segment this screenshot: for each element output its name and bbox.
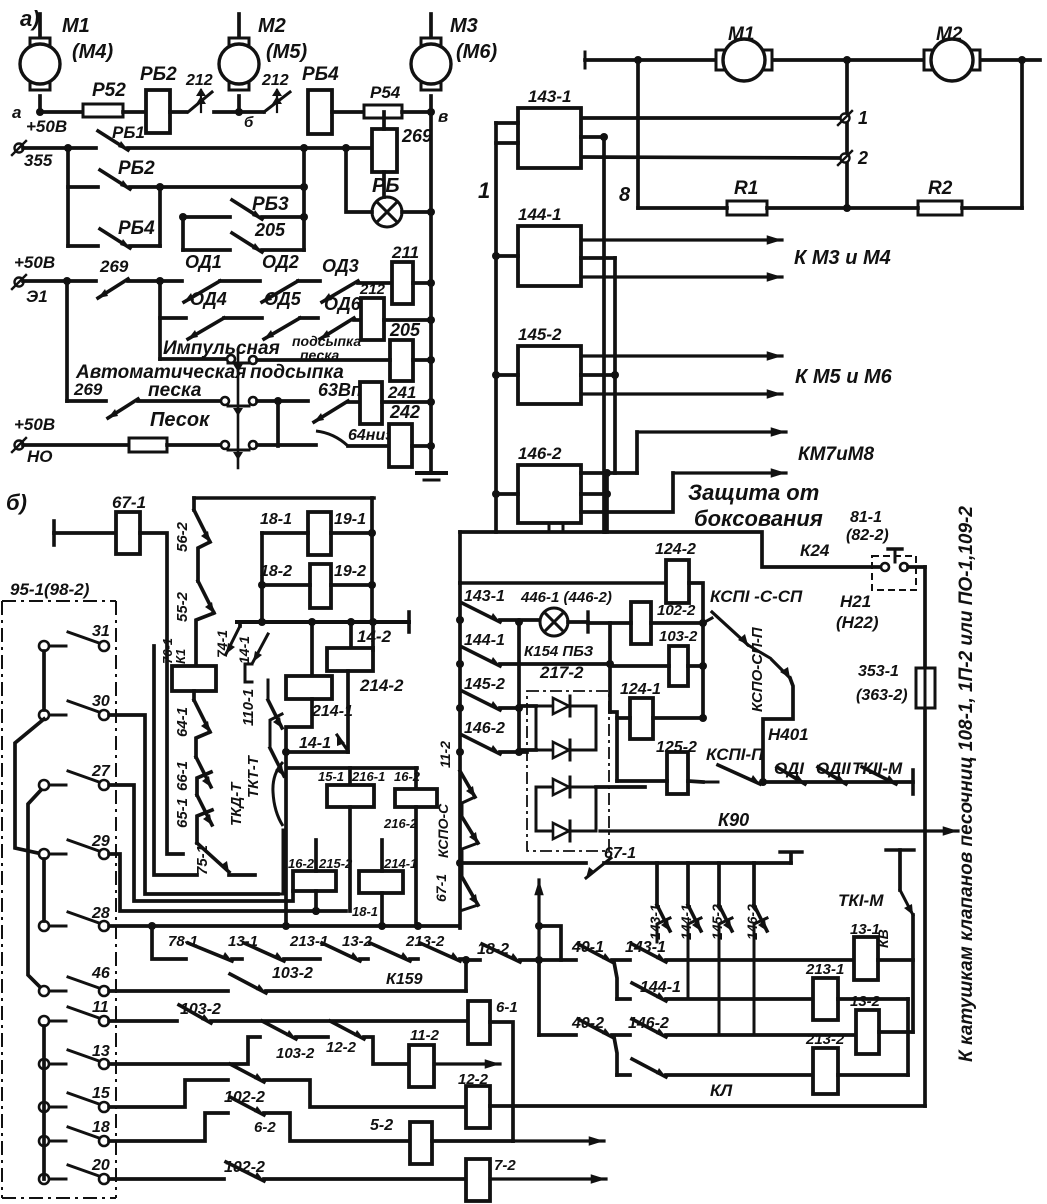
svg-text:242: 242: [389, 402, 420, 422]
svg-text:РБ2: РБ2: [118, 158, 155, 179]
wire RB4 to R54: [332, 110, 364, 114]
left rail x460 with contact column: [458, 583, 462, 928]
svg-text:ОД6: ОД6: [324, 294, 362, 314]
svg-text:15: 15: [92, 1085, 111, 1102]
svg-text:145-2: 145-2: [464, 676, 505, 693]
svg-text:ОД2: ОД2: [262, 252, 299, 272]
svg-text:19-2: 19-2: [334, 563, 366, 580]
wire 5-2 to node x513: [432, 1139, 513, 1143]
svg-text:К катушкам клапанов песочниц: К катушкам клапанов песочниц 108-1, 1П-2…: [956, 506, 977, 1062]
motor M1 (M4): [38, 14, 42, 44]
svg-text:143-1: 143-1: [528, 87, 571, 106]
wire NO to fuse: [23, 443, 129, 447]
ground symbol: [417, 471, 446, 475]
left rail of RB rows: [66, 148, 70, 246]
resistor R54: [364, 105, 402, 118]
svg-text:НО: НО: [27, 447, 53, 466]
svg-text:64низ: 64низ: [348, 427, 393, 444]
wire 241 to rail: [382, 400, 431, 404]
svg-text:КСПI-П: КСПI-П: [706, 745, 764, 764]
svg-text:78-1: 78-1: [168, 933, 198, 950]
wire under 214-1 box: [286, 699, 312, 752]
rail x160: [158, 187, 162, 246]
fuse: [129, 438, 167, 452]
svg-text:216-1: 216-1: [351, 769, 385, 784]
jog x539-x561: [539, 926, 561, 960]
svg-text:212: 212: [261, 72, 289, 89]
row 14-1: [286, 750, 348, 754]
wire 269 bottom to lamp: [382, 172, 386, 197]
bus +50V 355: [23, 146, 96, 150]
wires diode box left: [519, 704, 536, 708]
vertical 15-1 box down: [348, 807, 352, 911]
arrow K M3 M4 bottom: [581, 275, 782, 278]
svg-text:6-2: 6-2: [254, 1119, 276, 1136]
up arrow: [537, 880, 540, 958]
rail x703: [701, 623, 705, 719]
motor M2 right: [924, 50, 937, 70]
svg-text:К159: К159: [386, 971, 423, 988]
vertical 214-1 lower pins: [380, 840, 384, 871]
svg-text:46: 46: [91, 965, 110, 982]
right rail of section A: [429, 112, 433, 472]
contact 14-1 blade: [337, 735, 348, 751]
contact chain 55-2: [198, 542, 210, 581]
row ODI ODII TKII-M: [763, 780, 913, 784]
svg-text:67-1: 67-1: [433, 874, 449, 902]
left link 29-28: [42, 859, 46, 921]
wire M2 bottom lead: [237, 96, 241, 112]
svg-text:102-2: 102-2: [224, 1159, 265, 1176]
row 15: [109, 1080, 228, 1107]
lamp right terminal bar: [568, 620, 588, 624]
row C 40-2 146-2: [537, 960, 541, 1035]
svg-text:215-2: 215-2: [318, 856, 353, 871]
wire lamp row to 102-2: [588, 621, 631, 625]
svg-text:а): а): [20, 6, 40, 31]
row 18: [109, 1113, 228, 1141]
svg-text:56-2: 56-2: [174, 521, 191, 552]
svg-text:66-1: 66-1: [174, 761, 191, 791]
svg-text:146-2: 146-2: [518, 444, 562, 463]
wire R54 to node v: [402, 110, 431, 114]
rail x913: [911, 915, 915, 1032]
wire 40-2 drop to row D: [614, 1037, 617, 1075]
svg-text:К90: К90: [718, 810, 749, 830]
wire lamp left to bus node: [346, 148, 372, 212]
svg-text:М3: М3: [450, 15, 478, 37]
svg-text:ОД4: ОД4: [190, 289, 227, 309]
arrow row 20 out: [490, 1177, 606, 1180]
svg-text:ОД5: ОД5: [264, 289, 302, 309]
svg-text:29: 29: [91, 833, 110, 850]
svg-text:124-2: 124-2: [655, 541, 696, 558]
svg-text:18-1: 18-1: [260, 511, 292, 528]
svg-text:20: 20: [91, 1157, 110, 1174]
bus +50V E1: [23, 279, 96, 283]
svg-text:14-1: 14-1: [299, 735, 331, 752]
svg-text:R2: R2: [928, 178, 953, 199]
wire M1 bottom lead to node a: [38, 96, 42, 112]
svg-text:(82-2): (82-2): [846, 527, 889, 544]
svg-text:144-1: 144-1: [640, 979, 681, 996]
svg-text:ОД1: ОД1: [185, 252, 222, 272]
wire diode row 787: [596, 785, 645, 789]
left link 30 down diagonal: [15, 719, 44, 853]
arrow row 18 out: [513, 1139, 604, 1142]
svg-text:65-1: 65-1: [174, 798, 191, 828]
wire row 29 feed: [109, 854, 346, 911]
svg-text:б): б): [6, 490, 27, 515]
arrow KM7 top: [607, 471, 637, 475]
row 13: [109, 1037, 260, 1064]
svg-text:К1: К1: [173, 649, 188, 664]
svg-text:212: 212: [359, 281, 386, 298]
svg-text:145-2: 145-2: [518, 325, 562, 344]
riser x460 to top horizontal: [458, 532, 462, 583]
svg-text:81-1: 81-1: [850, 509, 882, 526]
svg-text:5-2: 5-2: [370, 1117, 393, 1134]
svg-text:(М5): (М5): [266, 41, 307, 63]
svg-text:30: 30: [92, 693, 110, 710]
svg-text:(Н22): (Н22): [836, 613, 879, 632]
wire 18-2 left: [262, 583, 310, 587]
svg-text:Песок: Песок: [150, 409, 210, 431]
bus 14-2: [237, 620, 409, 624]
resistor R52: [83, 104, 123, 117]
svg-text:11-2: 11-2: [410, 1027, 440, 1044]
svg-text:РБ4: РБ4: [118, 218, 155, 239]
svg-text:(363-2): (363-2): [856, 687, 908, 704]
svg-text:песка: песка: [148, 380, 202, 401]
wire row 28: [109, 924, 458, 928]
wire from boxes bottom to K24 path: [548, 523, 551, 532]
svg-text:103-2: 103-2: [659, 628, 698, 645]
wire after button row NO: [257, 443, 316, 447]
svg-text:19-1: 19-1: [334, 511, 366, 528]
svg-text:269: 269: [99, 257, 129, 276]
riser x466 to 18-2 row: [464, 960, 468, 991]
svg-text:31: 31: [92, 623, 110, 640]
rail x67 down: [65, 281, 69, 401]
motor M1 right: [716, 50, 729, 70]
contact RB1: [98, 131, 128, 150]
wire 144-1 left pin: [496, 254, 518, 258]
node on bus: [64, 144, 72, 152]
svg-text:М2: М2: [258, 15, 286, 37]
svg-text:13-2: 13-2: [850, 993, 881, 1010]
svg-text:55-2: 55-2: [174, 591, 191, 622]
wire box right rail x373: [371, 622, 375, 650]
rail x607 lower: [605, 473, 609, 532]
svg-text:213-2: 213-2: [405, 933, 445, 950]
svg-text:205: 205: [254, 220, 286, 240]
rail x604: [581, 135, 604, 139]
wire button to right rail: [908, 565, 925, 569]
row 11: [109, 1019, 177, 1023]
left link 27 diagonal to 46: [28, 790, 41, 986]
top horizontal of center section: [460, 581, 666, 585]
svg-text:а: а: [12, 103, 21, 122]
top horizontal of chain: [194, 496, 374, 500]
svg-text:124-1: 124-1: [620, 681, 661, 698]
svg-text:353-1: 353-1: [858, 663, 899, 680]
wire a to R52: [40, 110, 83, 114]
svg-text:Э1: Э1: [26, 287, 48, 306]
svg-text:110-1: 110-1: [240, 689, 257, 726]
coil 214-1 box: [310, 622, 314, 676]
svg-text:7-2: 7-2: [494, 1157, 516, 1174]
wires right boxes: [878, 958, 913, 962]
dash-dot border box: [2, 601, 116, 1198]
svg-text:14-1: 14-1: [236, 636, 252, 664]
coil K1 76-1: [196, 613, 214, 666]
wire M3 bottom lead: [429, 96, 433, 112]
terminal bar left of 67-1: [52, 521, 56, 545]
wire 124-2 right: [689, 583, 703, 623]
svg-text:РБ4: РБ4: [302, 64, 339, 85]
wire line 1 from box 143-1: [581, 116, 838, 120]
wire from terminal 31 rail: [154, 646, 197, 875]
node and rail x847: [843, 56, 851, 64]
wire RB2 right: [170, 110, 186, 114]
svg-text:103-2: 103-2: [276, 1045, 315, 1062]
rail x304: [302, 148, 306, 250]
wire impulse row: [160, 357, 226, 361]
rail x278: [276, 401, 280, 446]
wire 144-1 mid right pin: [581, 256, 615, 260]
coil RB2: [146, 90, 170, 133]
svg-text:18-2: 18-2: [260, 563, 292, 580]
svg-text:64-1: 64-1: [174, 707, 191, 737]
rail x610: [608, 623, 612, 712]
svg-text:205: 205: [389, 320, 421, 340]
svg-text:Н401: Н401: [768, 725, 809, 744]
diode 1: [553, 698, 569, 714]
svg-text:ТКI-М: ТКI-М: [838, 891, 884, 910]
rail x615: [613, 258, 617, 473]
svg-text:144-1: 144-1: [464, 632, 505, 649]
rail x372: [370, 498, 374, 622]
svg-text:211: 211: [391, 243, 419, 262]
motor M3 (M6): [429, 14, 433, 44]
chain 2 tail curve: [273, 762, 283, 826]
wire 269 top stub: [382, 112, 386, 129]
svg-text:боксования: боксования: [694, 506, 823, 531]
chain 2 blade 3: [267, 680, 270, 700]
left link 11-20 rail: [42, 1026, 46, 1179]
svg-text:15-1: 15-1: [318, 769, 344, 784]
R row wire: [638, 206, 727, 210]
wire line 2 from box 143-1: [581, 157, 838, 158]
wire after button row avto: [257, 399, 308, 403]
diode bridge box 2: [536, 787, 596, 831]
rail x617 down: [615, 718, 619, 781]
svg-text:212: 212: [185, 72, 213, 89]
arrow K M5 M6 bottom: [581, 392, 782, 395]
svg-text:241: 241: [387, 383, 416, 402]
wire 18-1 left: [262, 531, 308, 535]
wire 103-2 row: [610, 664, 669, 666]
wire 102-2 right: [651, 621, 703, 625]
svg-text:27: 27: [91, 763, 111, 780]
wire 6-1 right to x513: [490, 1022, 513, 1141]
wire row 27 feed: [109, 785, 293, 901]
svg-text:144-1: 144-1: [518, 205, 561, 224]
svg-text:213-2: 213-2: [805, 1031, 845, 1048]
svg-text:ТКД-Т: ТКД-Т: [228, 781, 245, 826]
svg-text:К154 ПБЗ: К154 ПБЗ: [524, 643, 594, 660]
wire 124-1 row: [610, 712, 630, 718]
svg-text:103-2: 103-2: [272, 965, 313, 982]
arrow K M3 M4 top: [581, 238, 782, 241]
svg-text:213-1: 213-1: [805, 961, 844, 978]
bracket: [245, 664, 252, 682]
svg-text:13-2: 13-2: [342, 933, 373, 950]
svg-text:Р52: Р52: [92, 80, 126, 101]
wire chain2 bottom join: [278, 893, 283, 896]
svg-text:63Вп: 63Вп: [318, 380, 362, 400]
rail x160 down from bus E1: [158, 281, 162, 359]
svg-text:+50В: +50В: [14, 253, 55, 272]
svg-text:8: 8: [619, 184, 631, 206]
rail x519 lamp column: [517, 622, 521, 752]
svg-text:Р54: Р54: [370, 83, 401, 102]
row 20: [109, 1177, 224, 1181]
row D: [617, 1073, 630, 1077]
svg-text:12-2: 12-2: [326, 1039, 357, 1056]
coil 14-2 box: [349, 622, 353, 648]
arrow row 13 out: [434, 1062, 500, 1065]
chain 2 blade 4: [270, 714, 282, 748]
diode 4: [553, 823, 569, 839]
svg-text:КЛ: КЛ: [710, 1081, 732, 1100]
svg-text:6-1: 6-1: [496, 999, 518, 1016]
svg-text:ТКТ-Т: ТКТ-Т: [245, 754, 262, 798]
svg-text:R1: R1: [734, 178, 758, 199]
svg-text:216-2: 216-2: [383, 816, 418, 831]
wire row 30 feed: [109, 715, 278, 894]
end bar ODI row: [911, 770, 915, 794]
svg-text:б: б: [244, 114, 254, 131]
svg-text:К М5 и М6: К М5 и М6: [795, 366, 893, 388]
arrow K M5 M6 top: [581, 354, 782, 357]
svg-text:214-1: 214-1: [383, 856, 417, 871]
svg-text:М1: М1: [62, 15, 90, 37]
svg-text:Н21: Н21: [840, 592, 871, 611]
wire 19-1 right: [331, 531, 372, 535]
row OD4 OD5 OD6: [160, 316, 186, 320]
coil 269 top: [372, 129, 397, 172]
svg-text:+50В: +50В: [26, 117, 67, 136]
wire 146-2 left pin: [496, 492, 518, 496]
svg-text:13: 13: [92, 1043, 110, 1060]
chain bottom to 75-1: [197, 810, 212, 843]
top bus right: [585, 58, 1040, 62]
svg-text:К М3 и М4: К М3 и М4: [794, 247, 891, 269]
wire R52 to RB2: [123, 110, 146, 114]
svg-text:РБ1: РБ1: [112, 123, 145, 142]
terminal 1: [841, 114, 850, 123]
wire fuse to button: [167, 443, 220, 447]
svg-text:95-1(98-2): 95-1(98-2): [10, 580, 90, 599]
wire 125-2 row: [617, 779, 667, 783]
long bottom line: [490, 1104, 925, 1108]
node and rail x638: [634, 56, 642, 64]
svg-text:М1: М1: [728, 24, 754, 45]
wire under 14-2 box: [346, 671, 350, 752]
svg-text:102-2: 102-2: [657, 602, 696, 619]
svg-text:КСПО-С: КСПО-С: [435, 803, 451, 858]
diode 3: [553, 779, 569, 795]
wire 19-2 right: [331, 583, 372, 587]
svg-text:РБ3: РБ3: [252, 194, 289, 215]
arrow KM7 bottom: [581, 473, 673, 512]
svg-text:1: 1: [858, 108, 868, 128]
vertical 16-2 box down: [414, 807, 418, 926]
wire 145-2 left pin: [496, 373, 518, 377]
svg-text:217-2: 217-2: [539, 663, 584, 682]
svg-text:143-1: 143-1: [464, 588, 505, 605]
svg-text:269: 269: [401, 126, 432, 146]
svg-text:11: 11: [92, 999, 109, 1016]
diode bridge box 1: [536, 706, 596, 750]
rail x262: [260, 533, 264, 622]
vertical 16-2 lower pins: [314, 840, 318, 871]
svg-text:18-1: 18-1: [352, 904, 378, 919]
svg-text:Защита от: Защита от: [688, 480, 819, 505]
svg-text:11-2: 11-2: [437, 741, 453, 768]
svg-text:+50В: +50В: [14, 415, 55, 434]
row A 18-2 40-1 143-1: [466, 958, 480, 962]
svg-text:28: 28: [91, 905, 110, 922]
left rail x496: [496, 121, 518, 125]
right rail x925: [923, 567, 927, 1106]
rail x1022: [1020, 60, 1024, 208]
svg-text:(М6): (М6): [456, 41, 497, 63]
svg-text:КМ7иМ8: КМ7иМ8: [798, 444, 875, 465]
wire 40-1 drop to row B: [614, 962, 617, 999]
row 28 drop x152: [152, 926, 186, 959]
rail x183: [181, 217, 185, 250]
svg-text:214-2: 214-2: [359, 676, 404, 695]
wire 67-1 right + rail x167: [140, 533, 183, 854]
svg-text:355: 355: [24, 151, 53, 170]
wire 145-2 mid right pin: [581, 373, 615, 377]
svg-text:КСПI -С-СП: КСПI -С-СП: [710, 587, 803, 606]
terminal 2: [841, 154, 850, 163]
wire 242 to rail: [412, 444, 431, 448]
svg-text:Импульсная: Импульсная: [163, 338, 280, 359]
svg-text:16-2: 16-2: [288, 856, 315, 871]
svg-text:18: 18: [92, 1119, 110, 1136]
svg-text:К24: К24: [800, 541, 830, 560]
svg-text:КСПО-СП-П: КСПО-СП-П: [749, 626, 766, 712]
vertical x286 from 14-1 row down: [284, 752, 288, 926]
coil 241: [360, 382, 382, 424]
svg-text:446-1 (446-2): 446-1 (446-2): [520, 589, 612, 606]
wire 205 row: [249, 356, 257, 364]
svg-text:в: в: [438, 107, 448, 126]
svg-text:143-1: 143-1: [625, 939, 666, 956]
left link 31-30: [42, 651, 46, 710]
wire to box 67-1: [54, 531, 116, 535]
svg-text:1: 1: [478, 178, 490, 203]
pushbutton chain: [237, 350, 240, 468]
svg-text:67-1: 67-1: [112, 493, 146, 512]
rail x908: [906, 999, 910, 1075]
row feeding 15-1 216-1 boxes: [288, 766, 417, 770]
